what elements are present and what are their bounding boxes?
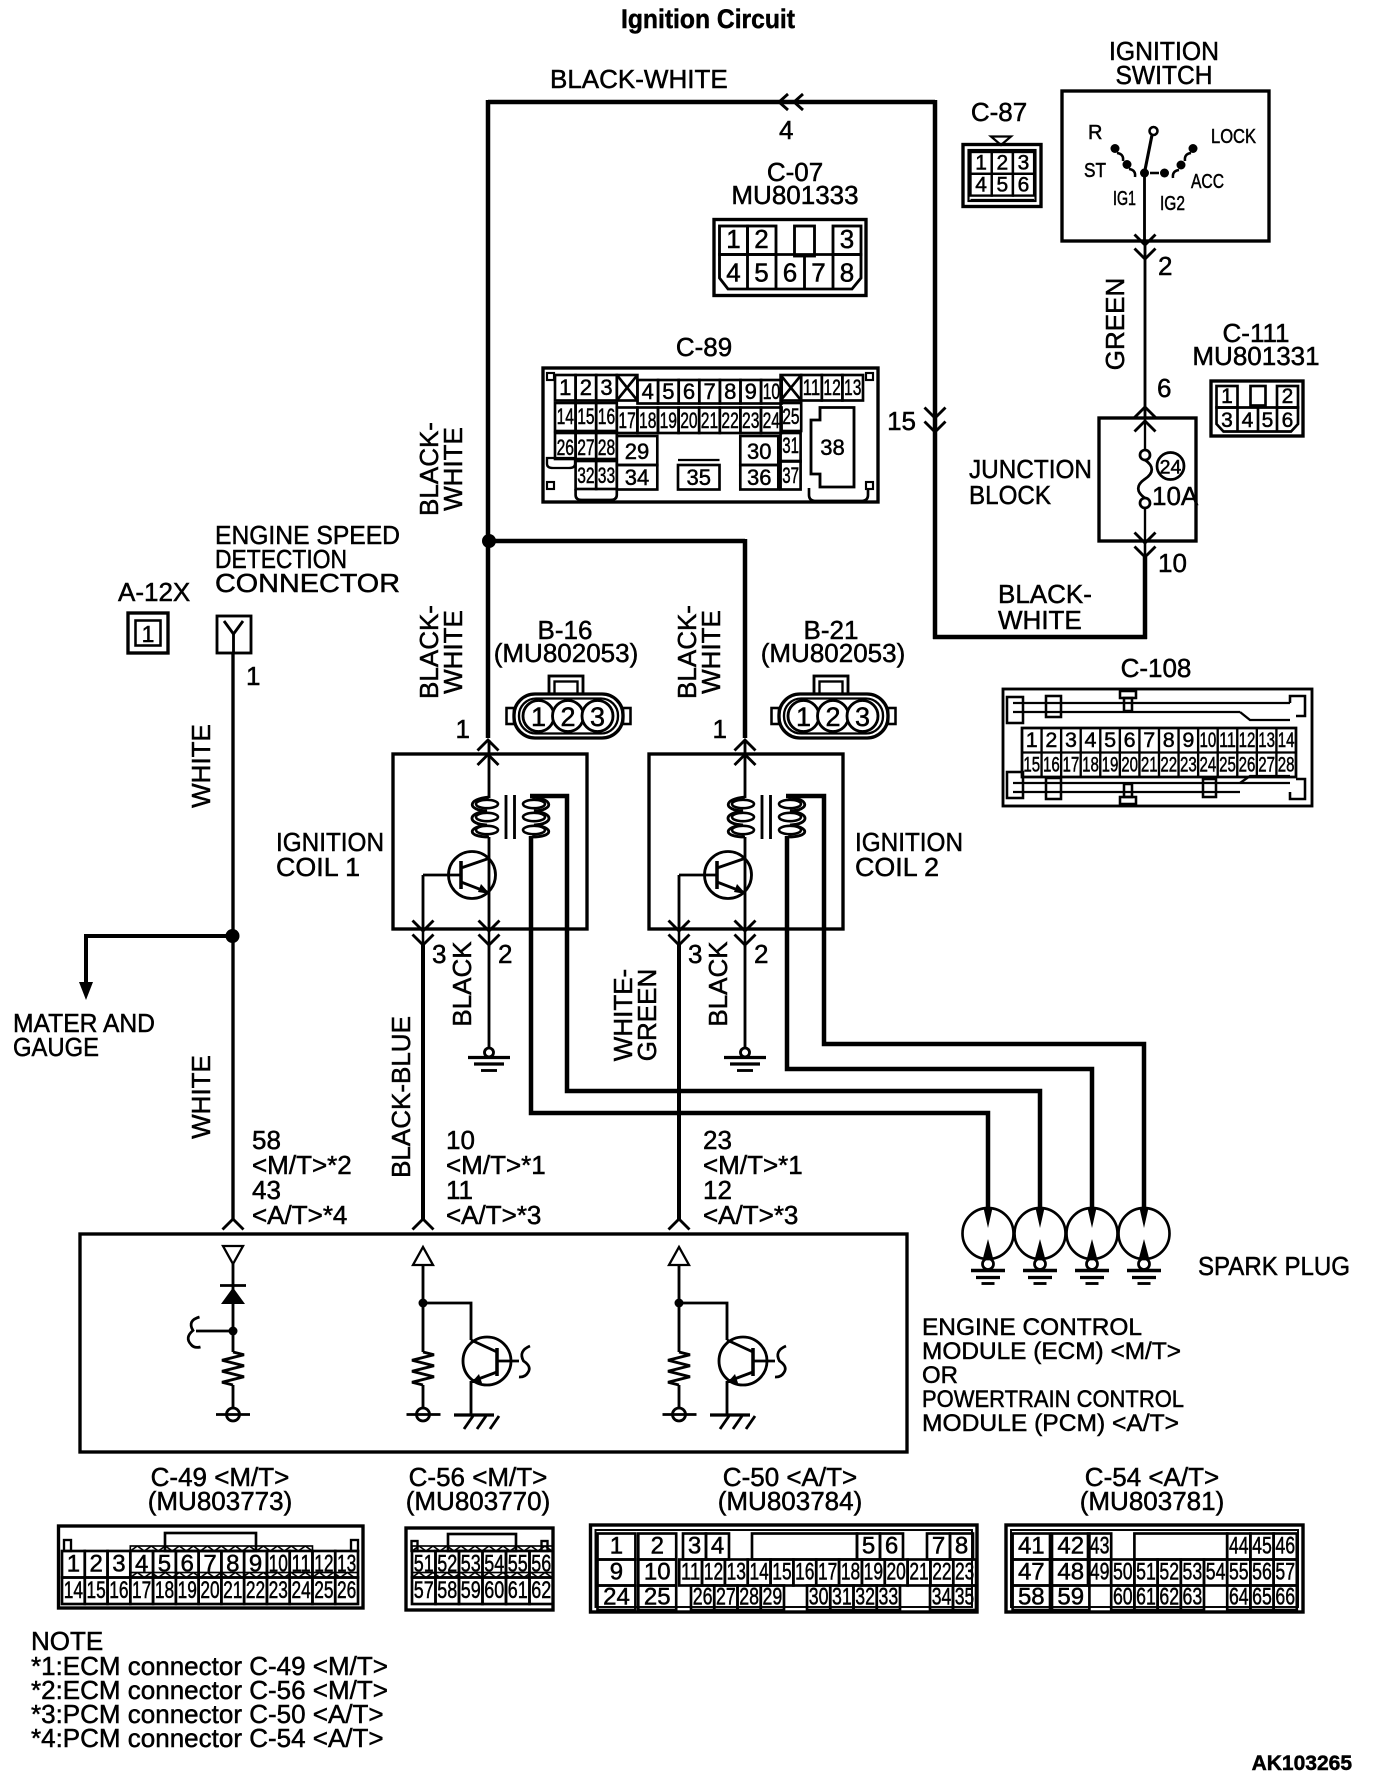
- svg-text:18: 18: [155, 1577, 174, 1604]
- svg-text:C-89: C-89: [676, 332, 732, 362]
- connector C-54 row 3 cells: [1013, 1586, 1050, 1611]
- svg-text:3: 3: [112, 1551, 125, 1578]
- ignition coil 2 base wire to pin 3: [678, 875, 681, 931]
- svg-text:1: 1: [142, 621, 155, 647]
- ignition coil 1 box: [393, 754, 587, 929]
- ignition coil 2 primary winding: [744, 740, 747, 798]
- svg-text:*4:PCM connector C-54 <A/T>: *4:PCM connector C-54 <A/T>: [31, 1723, 384, 1753]
- svg-text:5: 5: [1104, 728, 1116, 752]
- svg-text:3: 3: [1018, 152, 1030, 175]
- svg-text:C-108: C-108: [1121, 653, 1192, 683]
- ground coil 2: [741, 1048, 750, 1057]
- svg-text:17: 17: [618, 408, 635, 433]
- svg-text:46: 46: [1275, 1533, 1295, 1560]
- svg-text:5: 5: [996, 173, 1008, 196]
- svg-text:10: 10: [763, 379, 780, 404]
- svg-text:2: 2: [580, 375, 592, 400]
- svg-text:16: 16: [598, 404, 615, 429]
- junction dot meter branch: [226, 929, 240, 943]
- connector C-54 body: [1006, 1525, 1303, 1612]
- svg-text:14: 14: [557, 404, 574, 429]
- coil 2 pin 3 chevrons: [669, 921, 690, 932]
- svg-text:7: 7: [932, 1533, 945, 1560]
- svg-text:WHITE: WHITE: [186, 1055, 216, 1139]
- spark plug 4: [1119, 1208, 1170, 1259]
- svg-text:BLACK-BLUE: BLACK-BLUE: [386, 1016, 416, 1178]
- svg-text:27: 27: [716, 1584, 736, 1611]
- svg-text:9: 9: [745, 379, 757, 404]
- svg-text:4: 4: [1242, 409, 1254, 432]
- svg-text:15: 15: [772, 1559, 791, 1586]
- svg-text:3: 3: [1065, 728, 1077, 752]
- svg-text:58: 58: [437, 1577, 457, 1604]
- svg-text:15: 15: [577, 404, 594, 429]
- svg-text:50: 50: [1113, 1559, 1133, 1586]
- svg-text:61: 61: [508, 1577, 528, 1604]
- node ECM sub2: [419, 1299, 428, 1308]
- svg-text:22: 22: [246, 1577, 265, 1604]
- svg-text:3: 3: [688, 939, 702, 969]
- svg-text:6: 6: [683, 379, 695, 404]
- transistor Q3 emitter: [729, 1372, 753, 1381]
- svg-text:7: 7: [203, 1551, 216, 1578]
- svg-text:POWERTRAIN CONTROL: POWERTRAIN CONTROL: [922, 1386, 1184, 1413]
- svg-text:52: 52: [1159, 1559, 1179, 1586]
- svg-text:3: 3: [600, 375, 612, 400]
- svg-text:26: 26: [1239, 753, 1256, 777]
- connector C-108 pin grid: [1022, 728, 1296, 777]
- svg-text:COIL 2: COIL 2: [855, 852, 939, 882]
- ignition coil 1 base wire to pin 3: [422, 875, 425, 931]
- switch contact LOCK: [1189, 144, 1198, 153]
- svg-text:MODULE (PCM) <A/T>: MODULE (PCM) <A/T>: [922, 1410, 1179, 1437]
- connector C-89 body: [543, 368, 878, 502]
- coil 1 pin 1 chevrons: [478, 740, 499, 751]
- svg-text:2: 2: [560, 702, 575, 732]
- ignition coil 2 box: [649, 754, 843, 929]
- wire WHITE from engine speed connector: [231, 653, 234, 1220]
- connector C-89 cell 38: [811, 408, 854, 488]
- junction block chevrons bottom: [1135, 533, 1156, 544]
- svg-text:20: 20: [1121, 753, 1138, 777]
- svg-text:57: 57: [414, 1577, 434, 1604]
- svg-text:BLACK: BLACK: [447, 941, 477, 1027]
- ignition switch box: [1062, 91, 1269, 241]
- switch contact R: [1111, 144, 1120, 153]
- svg-text:2: 2: [89, 1551, 102, 1578]
- svg-text:12: 12: [1239, 728, 1256, 752]
- svg-text:6: 6: [181, 1551, 194, 1578]
- switch contact ACC: [1177, 161, 1186, 170]
- svg-text:C-87: C-87: [971, 97, 1027, 127]
- svg-text:34: 34: [625, 465, 649, 490]
- svg-text:19: 19: [864, 1559, 883, 1586]
- svg-text:26: 26: [557, 435, 574, 460]
- svg-text:(MU803773): (MU803773): [148, 1486, 293, 1516]
- coil 1 pin 3 chevrons: [413, 921, 434, 932]
- switch contact IG1: [1140, 169, 1149, 178]
- connector A-12X symbol: [128, 613, 168, 653]
- connector C-89 pin 15 chevrons on wire: [925, 408, 946, 419]
- svg-text:5: 5: [1262, 409, 1274, 432]
- resistor R2: [412, 1352, 434, 1385]
- svg-text:15: 15: [887, 406, 916, 436]
- svg-text:43: 43: [1090, 1533, 1110, 1560]
- diode D1: [220, 1284, 246, 1287]
- ECM input triangle 3 (up): [669, 1247, 689, 1265]
- svg-text:18: 18: [1082, 753, 1099, 777]
- svg-text:21: 21: [1141, 753, 1158, 777]
- svg-text:35: 35: [687, 465, 711, 490]
- fuse number 24 circled: [1157, 453, 1184, 480]
- svg-text:19: 19: [1102, 753, 1119, 777]
- squiggle continuation sub3: [775, 1346, 786, 1377]
- svg-text:(MU802053): (MU802053): [761, 638, 906, 668]
- connector C-50 body: [591, 1525, 978, 1612]
- svg-text:62: 62: [531, 1577, 551, 1604]
- svg-text:19: 19: [178, 1577, 197, 1604]
- svg-text:19: 19: [660, 408, 677, 433]
- connector C-50 row 1 cells: [598, 1534, 636, 1560]
- svg-text:IG1: IG1: [1113, 188, 1136, 210]
- ignition coil 1 secondary winding: [532, 797, 549, 837]
- connector C-89 bottom bumps: [576, 489, 617, 500]
- switch contact IG2: [1160, 169, 1169, 178]
- svg-text:35: 35: [955, 1584, 975, 1611]
- svg-text:4: 4: [642, 379, 654, 404]
- svg-text:9: 9: [610, 1559, 623, 1586]
- connector C-111 body: [1211, 381, 1303, 436]
- svg-text:41: 41: [1018, 1533, 1045, 1560]
- svg-text:31: 31: [782, 433, 799, 458]
- svg-text:7: 7: [1143, 728, 1155, 752]
- arrow double chevron on top wire: [779, 94, 788, 110]
- ECM input chevron 3: [669, 1219, 690, 1230]
- spark plug 1: [963, 1208, 1014, 1259]
- wire coil 2 emitter to ground: [744, 945, 747, 1048]
- svg-text:GREEN: GREEN: [1100, 278, 1130, 370]
- wire coil 2 secondary bottom to spark plug 3: [787, 836, 1092, 1209]
- transistor Q3: [719, 1337, 767, 1385]
- svg-text:23: 23: [955, 1559, 974, 1586]
- svg-text:9: 9: [249, 1551, 262, 1578]
- switch lever: [1145, 135, 1152, 170]
- svg-text:2: 2: [651, 1533, 664, 1560]
- engine speed connector symbol: [217, 616, 251, 653]
- svg-text:32: 32: [577, 463, 594, 488]
- svg-text:21: 21: [909, 1559, 928, 1586]
- svg-text:6: 6: [783, 258, 797, 288]
- svg-text:42: 42: [1057, 1533, 1084, 1560]
- svg-text:1: 1: [1221, 385, 1233, 408]
- svg-text:(MU803781): (MU803781): [1080, 1486, 1225, 1516]
- svg-text:25: 25: [1219, 753, 1236, 777]
- ignition coil 1 collector-emitter wire: [488, 837, 491, 931]
- svg-text:5: 5: [862, 1533, 875, 1560]
- svg-text:<A/T>*4: <A/T>*4: [252, 1200, 347, 1230]
- wire branch to squiggle: [196, 1330, 233, 1333]
- svg-text:MU801331: MU801331: [1192, 341, 1319, 371]
- svg-text:(MU803770): (MU803770): [406, 1486, 551, 1516]
- svg-text:BLACK-WHITE: BLACK-WHITE: [550, 64, 728, 94]
- svg-text:34: 34: [932, 1584, 952, 1611]
- wire BLACK-WHITE to ignition coil 2: [487, 539, 745, 544]
- connector B-21 body: [814, 676, 848, 694]
- svg-text:4: 4: [779, 115, 793, 145]
- svg-text:33: 33: [879, 1584, 899, 1611]
- connector C-108 body: [1003, 689, 1312, 806]
- svg-text:SPARK PLUG: SPARK PLUG: [1198, 1251, 1350, 1281]
- wire ECM sub1: [232, 1264, 235, 1331]
- svg-text:7: 7: [811, 258, 825, 288]
- svg-text:21: 21: [223, 1577, 242, 1604]
- svg-text:2: 2: [1045, 728, 1057, 752]
- ignition coil 2 transistor: [705, 852, 752, 899]
- wire coil 2 secondary top to spark plug 4: [786, 796, 1144, 1209]
- svg-text:10: 10: [1158, 548, 1187, 578]
- svg-text:13: 13: [1258, 728, 1275, 752]
- svg-text:10: 10: [644, 1559, 671, 1586]
- svg-text:58: 58: [1018, 1584, 1045, 1611]
- ignition coil 2 secondary winding: [788, 797, 805, 837]
- svg-text:8: 8: [226, 1551, 239, 1578]
- svg-text:8: 8: [840, 258, 854, 288]
- svg-text:54: 54: [1206, 1559, 1226, 1586]
- svg-text:1: 1: [531, 702, 546, 732]
- svg-text:ACC: ACC: [1191, 171, 1224, 193]
- svg-text:BLACK: BLACK: [703, 941, 733, 1027]
- resistor R3: [668, 1352, 690, 1385]
- connector C-89 cell 35 double top line: [678, 459, 720, 461]
- svg-text:1: 1: [559, 375, 571, 400]
- svg-text:18: 18: [639, 408, 656, 433]
- connector C-54 row 1 cells: [1013, 1534, 1050, 1560]
- terminal circle sub3: [678, 1385, 681, 1408]
- ignition coil 2 collector-emitter wire: [744, 837, 747, 931]
- svg-text:27: 27: [1258, 753, 1275, 777]
- svg-text:12: 12: [823, 375, 840, 400]
- svg-text:6: 6: [1018, 173, 1030, 196]
- svg-text:24: 24: [291, 1577, 310, 1604]
- coil 1 pin 2 chevrons: [479, 921, 500, 932]
- svg-text:55: 55: [1229, 1559, 1249, 1586]
- svg-text:<A/T>*3: <A/T>*3: [446, 1200, 541, 1230]
- svg-text:MU801333: MU801333: [731, 180, 858, 210]
- svg-text:1: 1: [975, 152, 987, 175]
- svg-text:9: 9: [1182, 728, 1194, 752]
- svg-text:1: 1: [726, 224, 740, 254]
- svg-text:20: 20: [887, 1559, 906, 1586]
- svg-text:18: 18: [841, 1559, 860, 1586]
- connector C-87 marker triangle: [991, 137, 1011, 146]
- node ECM sub3: [675, 1299, 684, 1308]
- svg-text:26: 26: [693, 1584, 713, 1611]
- wire ECM sub3: [678, 1265, 681, 1352]
- svg-text:COIL 1: COIL 1: [276, 852, 360, 882]
- svg-text:38: 38: [820, 435, 844, 460]
- svg-text:3: 3: [432, 939, 446, 969]
- wire coil 1 emitter to ground: [488, 945, 491, 1048]
- svg-text:1: 1: [610, 1533, 623, 1560]
- ignition coil 1 transistor: [449, 852, 496, 899]
- svg-text:10: 10: [269, 1551, 288, 1578]
- svg-text:6: 6: [1124, 728, 1136, 752]
- wire WHITE-GREEN coil 2 pin 3 to ECM: [677, 945, 681, 1220]
- svg-text:26: 26: [337, 1577, 356, 1604]
- svg-text:AK103265: AK103265: [1252, 1752, 1353, 1775]
- svg-text:62: 62: [1159, 1584, 1179, 1611]
- svg-text:2: 2: [996, 152, 1008, 175]
- svg-text:R: R: [1088, 122, 1102, 144]
- svg-text:20: 20: [200, 1577, 219, 1604]
- wire branch to transistor Q3: [679, 1303, 727, 1340]
- svg-text:60: 60: [1113, 1584, 1133, 1611]
- svg-text:4: 4: [975, 173, 987, 196]
- svg-text:8: 8: [1163, 728, 1175, 752]
- wire bottom horizontal y=637: [933, 635, 1147, 640]
- svg-text:6: 6: [1282, 409, 1294, 432]
- svg-text:12: 12: [704, 1559, 723, 1586]
- svg-text:45: 45: [1252, 1533, 1272, 1560]
- svg-text:2: 2: [754, 939, 768, 969]
- svg-text:13: 13: [337, 1551, 356, 1578]
- wire BLACK-WHITE top horizontal feed: [488, 100, 935, 105]
- wire continuity junction block bottom: [1144, 541, 1147, 559]
- svg-text:28: 28: [598, 435, 615, 460]
- svg-text:14: 14: [64, 1577, 83, 1604]
- junction block box: [1099, 418, 1196, 541]
- svg-text:64: 64: [1229, 1584, 1249, 1611]
- svg-text:24: 24: [1200, 753, 1217, 777]
- wire BLACK-WHITE to ignition coil 1: [486, 541, 491, 738]
- svg-text:31: 31: [832, 1584, 852, 1611]
- svg-text:14: 14: [1278, 728, 1295, 752]
- svg-text:MODULE (ECM) <M/T>: MODULE (ECM) <M/T>: [922, 1338, 1181, 1365]
- svg-text:16: 16: [1043, 753, 1060, 777]
- svg-text:2: 2: [1282, 385, 1294, 408]
- fuse 24 symbol: [1144, 418, 1146, 450]
- svg-text:36: 36: [747, 465, 771, 490]
- svg-text:25: 25: [314, 1577, 333, 1604]
- svg-text:23: 23: [1180, 753, 1197, 777]
- svg-text:60: 60: [484, 1577, 504, 1604]
- squiggle continuation sub1: [188, 1317, 200, 1347]
- svg-text:53: 53: [1183, 1559, 1203, 1586]
- svg-text:30: 30: [747, 439, 771, 464]
- svg-text:2: 2: [498, 939, 512, 969]
- ECM input triangle 1 (down): [223, 1246, 243, 1264]
- svg-text:3: 3: [590, 702, 605, 732]
- svg-text:6: 6: [885, 1533, 898, 1560]
- svg-text:54: 54: [484, 1551, 504, 1578]
- coil 2 pin 1 chevrons: [735, 740, 756, 751]
- svg-text:WHITE: WHITE: [438, 427, 468, 511]
- ECM input triangle 2 (up): [413, 1247, 433, 1265]
- svg-text:ENGINE CONTROL: ENGINE CONTROL: [922, 1314, 1142, 1341]
- connector C-87 body: [963, 145, 1041, 207]
- svg-text:WHITE: WHITE: [998, 605, 1082, 635]
- svg-text:5: 5: [662, 379, 674, 404]
- svg-text:51: 51: [1136, 1559, 1156, 1586]
- ground ECM sub2: [454, 1413, 494, 1416]
- svg-text:52: 52: [437, 1551, 457, 1578]
- transistor Q2 emitter: [473, 1372, 497, 1381]
- wire ECM sub2: [422, 1265, 425, 1352]
- svg-text:3: 3: [840, 224, 854, 254]
- svg-text:27: 27: [577, 435, 594, 460]
- svg-text:ST: ST: [1084, 160, 1106, 182]
- svg-text:(MU802053): (MU802053): [494, 638, 639, 668]
- svg-text:56: 56: [1252, 1559, 1272, 1586]
- svg-text:25: 25: [644, 1584, 671, 1611]
- svg-text:28: 28: [1278, 753, 1295, 777]
- svg-text:(MU803784): (MU803784): [718, 1486, 863, 1516]
- svg-text:1: 1: [796, 702, 811, 732]
- svg-text:6: 6: [1157, 373, 1171, 403]
- svg-text:23: 23: [742, 408, 759, 433]
- svg-text:12: 12: [314, 1551, 333, 1578]
- ECM input chevron 2: [413, 1219, 434, 1230]
- svg-text:17: 17: [132, 1577, 151, 1604]
- svg-text:48: 48: [1057, 1559, 1084, 1586]
- svg-text:53: 53: [461, 1551, 481, 1578]
- svg-text:16: 16: [795, 1559, 814, 1586]
- svg-text:3: 3: [688, 1533, 701, 1560]
- svg-text:WHITE: WHITE: [696, 610, 726, 694]
- svg-text:7: 7: [703, 379, 715, 404]
- svg-text:11: 11: [1219, 728, 1236, 752]
- svg-text:10: 10: [1200, 728, 1217, 752]
- wire coil 1 secondary top to spark plug 2: [530, 796, 1040, 1209]
- spark plug 2: [1015, 1208, 1066, 1259]
- svg-text:BLOCK: BLOCK: [969, 480, 1052, 510]
- svg-text:14: 14: [749, 1559, 768, 1586]
- connector C-50 row 3 cells: [598, 1586, 636, 1611]
- ground ECM sub3: [710, 1413, 750, 1416]
- wire GREEN switch to junction block: [1144, 241, 1147, 418]
- wire left vertical BLACK-WHITE x=488: [486, 100, 491, 543]
- svg-text:2: 2: [754, 224, 768, 254]
- ignition coil 1 primary winding: [488, 740, 491, 798]
- svg-text:2: 2: [1158, 251, 1172, 281]
- svg-text:33: 33: [598, 463, 615, 488]
- svg-text:59: 59: [461, 1577, 481, 1604]
- svg-text:8: 8: [724, 379, 736, 404]
- svg-text:11: 11: [681, 1559, 700, 1586]
- wire right vertical BLACK-WHITE x=935: [933, 100, 938, 639]
- svg-text:16: 16: [109, 1577, 128, 1604]
- svg-text:13: 13: [844, 375, 861, 400]
- wire branch to transistor Q2: [423, 1303, 471, 1340]
- svg-text:<A/T>*3: <A/T>*3: [703, 1200, 798, 1230]
- wire BLACK-BLUE coil 1 pin 3 to ECM: [421, 945, 425, 1220]
- svg-text:22: 22: [932, 1559, 951, 1586]
- ECM input chevron 1: [223, 1219, 244, 1230]
- connector B-16 body: [549, 676, 583, 694]
- wire branch to meter and gauge: [86, 934, 234, 938]
- terminal circle sub2: [422, 1385, 425, 1408]
- junction dot coil feed: [482, 534, 496, 548]
- wire continuity at coil pin chevrons: [422, 929, 425, 947]
- svg-text:13: 13: [727, 1559, 746, 1586]
- svg-text:IG2: IG2: [1160, 193, 1185, 215]
- svg-text:17: 17: [1063, 753, 1080, 777]
- connector C-56 body: [406, 1528, 553, 1610]
- svg-text:17: 17: [818, 1559, 837, 1586]
- svg-text:63: 63: [1183, 1584, 1203, 1611]
- svg-text:47: 47: [1018, 1559, 1045, 1586]
- svg-text:44: 44: [1229, 1533, 1249, 1560]
